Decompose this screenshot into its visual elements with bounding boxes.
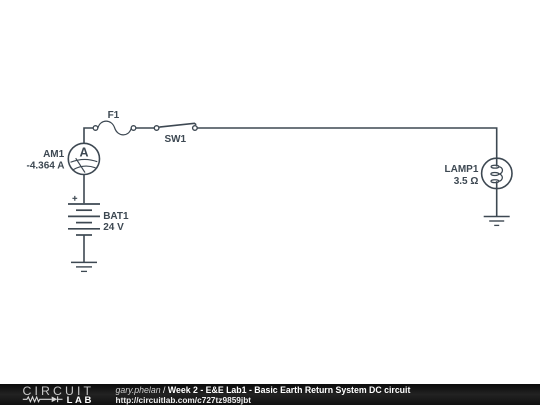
svg-text:BAT1: BAT1: [103, 211, 129, 222]
svg-text:A: A: [79, 145, 88, 159]
svg-text:-4.364 A: -4.364 A: [27, 161, 65, 172]
svg-text:24 V: 24 V: [103, 222, 124, 233]
svg-text:AM1: AM1: [43, 149, 65, 160]
svg-text:http://circuitlab.com/c727tz98: http://circuitlab.com/c727tz9859jbt: [116, 395, 252, 405]
svg-text:gary.phelan / Week 2 - E&E Lab: gary.phelan / Week 2 - E&E Lab1 - Basic …: [116, 385, 411, 395]
svg-text:3.5 Ω: 3.5 Ω: [454, 176, 479, 187]
svg-text:LAB: LAB: [67, 395, 94, 405]
svg-text:F1: F1: [108, 110, 120, 121]
svg-text:LAMP1: LAMP1: [444, 164, 478, 175]
svg-text:SW1: SW1: [164, 134, 186, 145]
